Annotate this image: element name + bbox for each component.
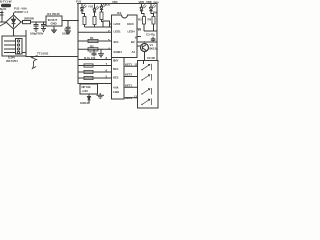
svg-text:100µ3: 100µ3 [62, 31, 70, 35]
svg-text:R·7μ 10k: R·7μ 10k [84, 56, 96, 60]
svg-text:1N4148: 1N4148 [80, 101, 90, 105]
svg-text:KET2: KET2 [125, 73, 132, 77]
svg-text:KET1: KET1 [125, 62, 132, 66]
svg-text:M·01: M·01 [0, 7, 7, 11]
svg-text:92: 92 [135, 36, 139, 40]
svg-text:KET3: KET3 [125, 96, 132, 100]
svg-text:9C1: 9C1 [114, 40, 119, 44]
svg-text:LED4: LED4 [128, 29, 135, 33]
svg-text:R09: R09 [154, 0, 159, 4]
svg-text:S9013A: S9013A [148, 46, 159, 50]
svg-text:LED1: LED1 [114, 29, 121, 33]
svg-text:17: 17 [138, 28, 142, 32]
svg-text:A1: A1 [132, 50, 136, 54]
svg-text:C2 3R: C2 3R [147, 56, 156, 60]
svg-text:VD8: VD8 [146, 0, 152, 4]
svg-text:8NY: 8NY [113, 59, 118, 63]
svg-text:R6: R6 [153, 11, 157, 15]
svg-text:KE2: KE2 [113, 76, 119, 80]
svg-text:12: 12 [134, 62, 138, 66]
svg-text:13: 13 [134, 94, 138, 98]
svg-text:10C0: 10C0 [127, 22, 134, 26]
svg-text:VD3: VD3 [112, 0, 118, 4]
svg-text:6A8E1: 6A8E1 [114, 50, 123, 54]
svg-text:14k0: 14k0 [113, 90, 120, 94]
svg-text:4.0k: 4.0k [113, 86, 119, 90]
svg-text:2N4007 x 4: 2N4007 x 4 [14, 10, 28, 14]
svg-text:26R/2W: 26R/2W [24, 16, 34, 20]
svg-text:L2C0: L2C0 [114, 22, 121, 26]
svg-text:B2: B2 [131, 40, 135, 44]
svg-text:R4: R4 [148, 18, 152, 22]
svg-text:R2: R2 [90, 45, 94, 49]
svg-text:NC1: NC1 [113, 67, 119, 71]
svg-text:IC1 78L05: IC1 78L05 [47, 12, 60, 16]
svg-text:B·TY1·W: B·TY1·W [0, 0, 12, 4]
svg-text:FU1: FU1 [76, 0, 82, 4]
svg-text:IC2: IC2 [117, 11, 122, 15]
svg-text:+12V: +12V [82, 89, 89, 93]
svg-text:C3 47µ: C3 47µ [146, 32, 155, 36]
svg-text:VD5: VD5 [105, 3, 111, 7]
svg-text:TT1 0011: TT1 0011 [37, 52, 49, 56]
svg-text:GND: GND [51, 22, 57, 26]
svg-text:R1: R1 [90, 36, 94, 40]
svg-text:YU1: YU1 [88, 5, 94, 9]
svg-text:KET1: KET1 [125, 84, 132, 88]
svg-text:VD6: VD6 [139, 0, 145, 4]
svg-text:2017/V04: 2017/V04 [6, 59, 18, 63]
svg-text:R3: R3 [138, 18, 142, 22]
svg-text:100µF/50V: 100µF/50V [30, 31, 43, 35]
